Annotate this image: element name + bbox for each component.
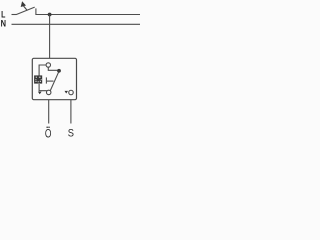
wire terminal S down [70,100,72,124]
electronics block A1 [34,75,42,83]
terminal marker triangle left [38,92,42,95]
wire L left segment [12,14,17,16]
switch S1 blade [16,7,34,14]
wire terminal O down [48,100,50,124]
junction on L [48,13,52,17]
wire contact circle to pivot [48,67,57,70]
switch S1 fixed contact bar [35,8,37,15]
input contact circle [46,63,50,67]
wire circle to electronics block [39,65,46,76]
svg-text:O: O [45,127,52,140]
terminal circle O [46,90,51,95]
svg-text:N: N [1,19,6,29]
actuator linkage bar [45,77,47,83]
device box U1 [32,58,76,99]
node O label [45,127,52,141]
switch S1 actuation arrowhead [21,1,26,7]
wire from L junction down to device [49,15,51,59]
wire L right segment [36,14,140,16]
terminal marker triangle right [65,91,69,94]
relay blade [50,72,58,90]
wire N [12,23,141,25]
switch S1 actuation arrow shaft [24,6,28,11]
actuator linkage line [47,80,54,82]
pivot junction dot [57,69,61,73]
svg-text:S: S [68,128,74,140]
terminal circle S [69,90,74,95]
wire block to terminal O [39,84,47,91]
